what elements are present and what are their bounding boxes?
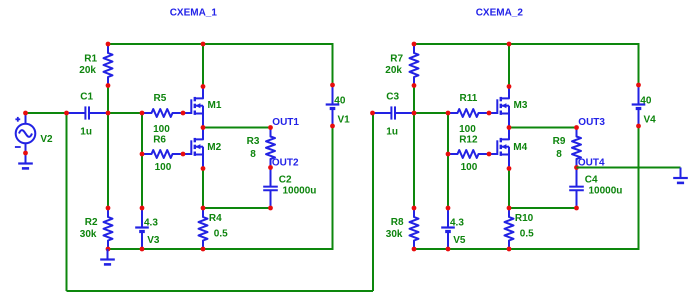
resistor R9 — [572, 128, 581, 168]
svg-text:C3: C3 — [386, 92, 399, 103]
wire input node to R5 — [108, 112, 142, 114]
label V2 — [40, 134, 53, 145]
junction dot — [181, 111, 186, 116]
label M4 — [513, 142, 527, 153]
resistor R2 — [104, 208, 113, 249]
junction dot — [487, 152, 492, 157]
junction dot — [446, 206, 451, 211]
battery V4 — [632, 85, 646, 126]
label M1 — [208, 100, 222, 111]
resistor R5 — [142, 109, 183, 117]
value C1 1u — [80, 127, 92, 138]
value R9 8 — [556, 149, 562, 160]
svg-text:R4: R4 — [209, 213, 222, 224]
value R10 0.5 — [520, 228, 534, 239]
svg-text:V1: V1 — [338, 114, 351, 125]
ground below V2 — [18, 153, 33, 168]
value R11 100 — [459, 124, 476, 135]
svg-text:100: 100 — [155, 162, 172, 173]
label R3 — [247, 136, 260, 147]
wire battery V4 down — [638, 126, 640, 249]
wire bottom rail CXEMA_1 — [108, 248, 334, 250]
svg-text:V2: V2 — [40, 134, 53, 145]
junction dot — [268, 165, 273, 170]
wire R7 to input node — [413, 86, 415, 114]
svg-text:R10: R10 — [515, 213, 534, 224]
label M3 — [514, 100, 528, 111]
svg-text:R5: R5 — [154, 93, 167, 104]
value V4 40 — [640, 96, 652, 107]
value R6 100 — [155, 162, 172, 173]
svg-text:R8: R8 — [391, 217, 404, 228]
svg-text:10000u: 10000u — [283, 186, 317, 197]
junction dot — [487, 111, 492, 116]
label C2 — [279, 174, 292, 185]
junction dot — [140, 247, 145, 252]
svg-text:20k: 20k — [385, 65, 402, 76]
capacitor C4 — [569, 168, 584, 209]
wire C1 input column — [66, 113, 68, 291]
svg-text:8: 8 — [556, 149, 562, 160]
junction dot — [64, 111, 69, 116]
svg-text:0.5: 0.5 — [214, 228, 228, 239]
junction dot — [201, 247, 206, 252]
wire rail to battery V4 — [638, 43, 640, 85]
junction dot — [268, 206, 273, 211]
wire rail to battery V1 — [332, 43, 334, 85]
label R7 — [390, 54, 403, 65]
junction dot — [412, 111, 417, 116]
wire top rail CXEMA_1 — [108, 43, 333, 45]
value V1 40 — [334, 96, 346, 107]
junction dot — [106, 83, 111, 88]
junction dot — [574, 206, 579, 211]
svg-text:R7: R7 — [390, 54, 403, 65]
svg-text:OUT2: OUT2 — [272, 158, 299, 169]
label R10 — [515, 213, 534, 224]
svg-text:OUT3: OUT3 — [578, 117, 605, 128]
svg-text:M1: M1 — [208, 100, 222, 111]
svg-text:V3: V3 — [147, 235, 160, 246]
value V3 4.3 — [144, 217, 158, 228]
ground below R2 — [100, 249, 115, 264]
svg-text:R12: R12 — [459, 135, 478, 146]
svg-text:M2: M2 — [207, 142, 221, 153]
value R4 0.5 — [214, 228, 228, 239]
svg-text:C1: C1 — [80, 92, 93, 103]
svg-text:V5: V5 — [453, 235, 466, 246]
value C2 10000u — [283, 186, 317, 197]
svg-text:1u: 1u — [386, 127, 398, 138]
junction dot — [446, 247, 451, 252]
wire node OUT1 — [203, 127, 271, 129]
resistor R10 — [505, 208, 514, 249]
wire battery V1 down — [332, 126, 334, 249]
junction dot — [636, 124, 641, 129]
svg-text:1u: 1u — [80, 127, 92, 138]
wire drain column M1 — [202, 44, 204, 87]
transistor M2 — [183, 128, 203, 169]
wire M2 source to R4 — [202, 169, 204, 209]
label R6 — [153, 135, 166, 146]
svg-text:100: 100 — [461, 162, 478, 173]
label R12 — [459, 135, 478, 146]
junction dot — [507, 166, 512, 171]
junction dot — [412, 83, 417, 88]
node label OUT2 — [272, 158, 299, 169]
junction dot — [201, 84, 206, 89]
capacitor C3 — [373, 106, 415, 119]
junction dot — [412, 247, 417, 252]
svg-text:CXEMA_1: CXEMA_1 — [170, 8, 218, 19]
battery V1 — [326, 85, 340, 126]
label R9 — [553, 136, 566, 147]
battery V5 — [441, 208, 455, 249]
wire bias column — [447, 113, 449, 208]
svg-text:30k: 30k — [386, 229, 403, 240]
wire top rail CXEMA_2 — [414, 43, 639, 45]
junction dot — [201, 166, 206, 171]
label M2 — [207, 142, 221, 153]
value R5 100 — [153, 124, 170, 135]
label C4 — [585, 174, 598, 185]
value R7 20k — [385, 65, 402, 76]
svg-text:30k: 30k — [80, 229, 97, 240]
value V5 4.3 — [450, 217, 464, 228]
junction dot — [181, 152, 186, 157]
resistor R8 — [410, 208, 419, 249]
svg-text:R1: R1 — [84, 54, 97, 65]
plus sign V2 — [15, 117, 20, 122]
junction dot — [446, 111, 451, 116]
value R2 30k — [80, 229, 97, 240]
junction dot — [507, 125, 512, 130]
wire OUT4 to ground — [577, 167, 681, 169]
svg-text:8: 8 — [250, 149, 256, 160]
junction dot — [507, 42, 512, 47]
junction dot — [106, 111, 111, 116]
ground at OUT4 — [673, 168, 688, 183]
svg-text:40: 40 — [334, 96, 346, 107]
wire R4 to C2 — [203, 207, 271, 209]
wire node OUT3 — [509, 127, 577, 129]
label V3 — [147, 235, 160, 246]
label V1 — [338, 114, 351, 125]
svg-text:M3: M3 — [514, 100, 528, 111]
title CXEMA_2 — [476, 8, 524, 19]
svg-text:20k: 20k — [79, 65, 96, 76]
svg-text:100: 100 — [459, 124, 476, 135]
junction dot — [201, 206, 206, 211]
junction dot — [23, 111, 28, 116]
label V4 — [644, 114, 657, 125]
junction dot — [446, 152, 451, 157]
junction dot — [268, 125, 273, 130]
svg-text:C2: C2 — [279, 174, 292, 185]
junction dot — [23, 151, 28, 156]
resistor R11 — [448, 109, 489, 117]
resistor R4 — [199, 208, 208, 249]
svg-text:R6: R6 — [153, 135, 166, 146]
junction dot — [140, 206, 145, 211]
svg-text:0.5: 0.5 — [520, 228, 534, 239]
junction dot — [201, 42, 206, 47]
svg-text:4.3: 4.3 — [144, 217, 158, 228]
junction dot — [106, 42, 111, 47]
resistor R6 — [142, 150, 183, 158]
label C1 — [80, 92, 93, 103]
junction dot — [507, 84, 512, 89]
svg-text:M4: M4 — [513, 142, 527, 153]
transistor M3 — [489, 87, 509, 128]
label R5 — [154, 93, 167, 104]
resistor R3 — [266, 128, 275, 168]
junction dot — [507, 206, 512, 211]
resistor R7 — [410, 44, 419, 86]
value C3 1u — [386, 127, 398, 138]
junction dot — [412, 206, 417, 211]
junction dot — [106, 247, 111, 252]
node label OUT4 — [578, 158, 605, 169]
junction dot — [507, 247, 512, 252]
junction dot — [201, 125, 206, 130]
label C3 — [386, 92, 399, 103]
wire input node down to R8 — [413, 113, 415, 208]
junction dot — [330, 124, 335, 129]
node label OUT3 — [578, 117, 605, 128]
junction dot C3 input — [370, 111, 375, 116]
label R11 — [460, 93, 478, 104]
junction dot — [574, 125, 579, 130]
value C4 10000u — [589, 186, 623, 197]
battery V3 — [135, 208, 149, 249]
svg-text:R11: R11 — [460, 93, 478, 104]
resistor R1 — [104, 44, 113, 86]
wire bottom rail CXEMA_2 — [414, 248, 640, 250]
resistor R12 — [448, 150, 489, 158]
junction dot — [106, 206, 111, 211]
wire R10 to C4 — [509, 207, 577, 209]
svg-text:4.3: 4.3 — [450, 217, 464, 228]
svg-text:CXEMA_2: CXEMA_2 — [476, 8, 524, 19]
junction dot — [140, 152, 145, 157]
wire V2 to C1 — [26, 112, 67, 114]
junction dot — [574, 165, 579, 170]
svg-text:10000u: 10000u — [589, 186, 623, 197]
value R8 30k — [386, 229, 403, 240]
wire input node to R11 — [414, 112, 448, 114]
svg-text:R3: R3 — [247, 136, 260, 147]
svg-text:R9: R9 — [553, 136, 566, 147]
svg-text:100: 100 — [153, 124, 170, 135]
capacitor C2 — [263, 168, 278, 209]
transistor M1 — [183, 87, 203, 128]
source V2 — [16, 113, 36, 153]
title CXEMA_1 — [170, 8, 218, 19]
transistor M4 — [489, 128, 509, 169]
value R3 8 — [250, 149, 256, 160]
svg-text:C4: C4 — [585, 174, 598, 185]
label V5 — [453, 235, 466, 246]
value R12 100 — [461, 162, 478, 173]
junction dot — [330, 83, 335, 88]
label R4 — [209, 213, 222, 224]
node label OUT1 — [272, 117, 299, 128]
minus sign V2 — [15, 146, 21, 148]
junction dot — [636, 83, 641, 88]
wire M4 source to R10 — [508, 169, 510, 209]
wire input node down to R2 — [107, 113, 109, 208]
wire R1 to input node — [107, 86, 109, 114]
label R8 — [391, 217, 404, 228]
wire bias column — [141, 113, 143, 208]
svg-text:40: 40 — [640, 96, 652, 107]
svg-text:V4: V4 — [644, 114, 657, 125]
capacitor C1 — [67, 106, 109, 119]
svg-text:OUT1: OUT1 — [272, 117, 299, 128]
svg-text:R2: R2 — [85, 217, 98, 228]
junction dot — [140, 111, 145, 116]
label R1 — [84, 54, 97, 65]
wire bottom interconnect — [67, 290, 374, 292]
junction dot — [412, 42, 417, 47]
label R2 — [85, 217, 98, 228]
wire drain column M3 — [508, 44, 510, 87]
wire to C3 input — [372, 113, 374, 291]
value R1 20k — [79, 65, 96, 76]
